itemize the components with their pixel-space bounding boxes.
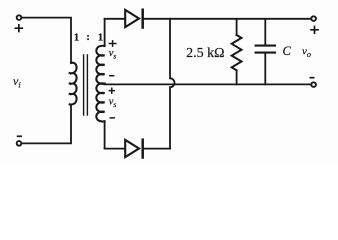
output + terminal (311, 16, 316, 21)
wire input top (22, 18, 71, 63)
minus label output (310, 77, 313, 79)
svg-text:2.5 kΩ: 2.5 kΩ (186, 46, 224, 61)
svg-text:vs: vs (109, 97, 117, 110)
wire D2 to vertical (143, 148, 170, 150)
capacitor C plates (256, 46, 275, 53)
transformer primary L1 (69, 63, 77, 105)
wire secondary bottom lead (104, 121, 106, 148)
resistor R zigzag (232, 35, 242, 70)
minus label input (18, 135, 22, 137)
diode D2 (125, 140, 139, 157)
capacitor C leads (264, 20, 266, 85)
diode D1 (125, 10, 139, 27)
secondary lower minus (110, 117, 114, 119)
secondary upper plus (109, 41, 115, 46)
diode D1 cathode bar (141, 10, 144, 28)
secondary lower plus (109, 88, 114, 93)
wire secondary top to diode D1 (105, 18, 126, 20)
input - terminal (17, 141, 22, 146)
wire top rail (143, 18, 312, 20)
diode D2 cathode bar (141, 140, 144, 158)
secondary upper minus (110, 75, 114, 77)
svg-text:1: 1 (74, 32, 80, 44)
svg-text:1: 1 (98, 32, 104, 44)
svg-text:C: C (283, 44, 292, 58)
output - terminal (311, 82, 316, 87)
plus label input (15, 25, 22, 32)
wire vertical from top rail down to D2 with hop over center tap (170, 19, 175, 149)
transformer secondary upper winding (96, 46, 104, 84)
plus label output (311, 27, 318, 34)
transformer secondary lower winding (96, 83, 104, 121)
svg-text:vi: vi (13, 74, 21, 90)
wire center tap rail (105, 83, 312, 85)
svg-text:vo: vo (302, 46, 311, 60)
svg-text::: : (86, 31, 90, 43)
wire secondary bottom to diode D2 (105, 148, 126, 150)
resistor R 2.5k leads (236, 20, 238, 85)
wire input bottom (22, 105, 71, 144)
wire secondary top lead (104, 19, 106, 46)
transformer core (84, 55, 88, 115)
svg-text:vs: vs (109, 48, 117, 61)
input + terminal (17, 15, 22, 20)
